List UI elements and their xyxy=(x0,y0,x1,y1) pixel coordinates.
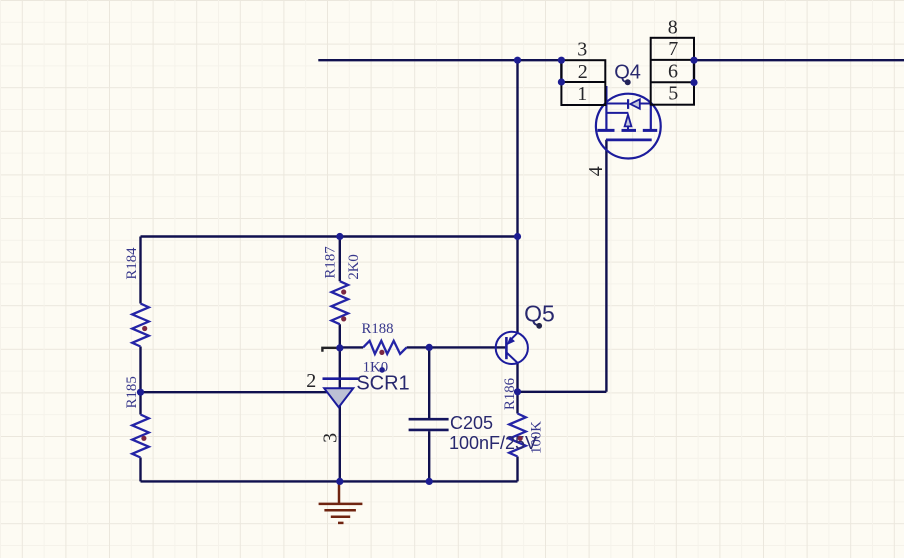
mosfet Q4 body diode cathode bar xyxy=(627,99,629,109)
wire Q4 pins 2-3 tie xyxy=(560,60,562,82)
mosfet Q4 channel dash 1 xyxy=(598,129,615,132)
thyristor SCR1 triangle xyxy=(324,388,353,407)
svg-text:R187: R187 xyxy=(322,246,338,278)
svg-text:SCR1: SCR1 xyxy=(356,372,409,394)
junction node Q4 pin 7 xyxy=(690,57,697,64)
marker dot R184 xyxy=(142,326,147,331)
svg-text:7: 7 xyxy=(668,38,678,60)
transistor Q5 circle xyxy=(496,332,528,364)
ground symbol xyxy=(319,481,363,523)
mosfet Q4 circle xyxy=(596,94,661,159)
mosfet Q4 origin dot xyxy=(625,79,631,85)
wire left rail upper segment xyxy=(139,237,141,304)
junction node Q4 pin 6 xyxy=(690,79,697,86)
mosfet Q4 gate bar xyxy=(606,138,652,141)
resistor R186 xyxy=(509,414,526,457)
svg-text:3: 3 xyxy=(577,38,587,60)
mosfet Q4 drain lead xyxy=(650,104,652,131)
transistor Q5 emitter diagonal upper xyxy=(511,333,517,339)
capacitor C205 xyxy=(409,419,449,430)
wire R188 left xyxy=(340,346,363,348)
marker dot R187 upper xyxy=(341,289,346,294)
wire left rail lower segment xyxy=(139,458,141,482)
Q4 pin box left (pins 1-3) xyxy=(561,60,605,105)
svg-text:Q5: Q5 xyxy=(524,301,555,327)
resistor R184 xyxy=(132,304,149,347)
mosfet Q4 channel dash 2 xyxy=(622,129,637,132)
wire R186 bottom xyxy=(516,457,518,482)
svg-text:R184: R184 xyxy=(124,247,140,280)
junction node mid rail vertical xyxy=(514,233,521,240)
wire SCR branch upper xyxy=(339,237,341,282)
wire SCR gate horizontal xyxy=(141,391,330,393)
junction node gate net xyxy=(514,388,521,395)
svg-text:3: 3 xyxy=(320,433,342,443)
wire top-left horizontal xyxy=(318,59,561,61)
marker dot R185 xyxy=(141,436,146,441)
wire bottom rail xyxy=(141,480,518,482)
svg-text:2: 2 xyxy=(306,370,316,392)
junction node Q4 pin 2 xyxy=(558,78,565,85)
marker dot R187 lower xyxy=(341,316,346,321)
svg-text:C205: C205 xyxy=(450,413,493,433)
resistor R185 xyxy=(132,415,149,458)
wire C205 lower xyxy=(428,431,430,481)
svg-text:100nF/25V: 100nF/25V xyxy=(449,433,537,453)
wire mid horizontal rail xyxy=(141,235,518,237)
mosfet Q4 body diode line right xyxy=(640,103,651,105)
wire Q4 source lead xyxy=(605,86,607,130)
mosfet Q4 substrate arrow stem xyxy=(627,125,629,131)
svg-text:R188: R188 xyxy=(361,321,393,337)
mosfet Q4 body diode line left xyxy=(606,103,627,105)
wire top-right horizontal xyxy=(694,59,904,61)
thyristor SCR1 cathode bar xyxy=(323,377,359,380)
SCR1 pin 1 number xyxy=(322,348,339,352)
wire Q4 gate vertical xyxy=(605,140,607,392)
svg-text:2: 2 xyxy=(578,61,588,83)
junction node SCR anode R188 xyxy=(336,344,343,351)
svg-text:6: 6 xyxy=(668,61,678,83)
marker dot SCR1 origin xyxy=(379,367,385,373)
junction node left rail tap xyxy=(137,389,144,396)
mosfet Q4 body diode triangle xyxy=(630,99,640,109)
wire R188 to Q5 base xyxy=(407,346,506,348)
svg-text:1: 1 xyxy=(577,83,587,105)
wire C205 upper xyxy=(428,347,430,418)
svg-text:5: 5 xyxy=(668,83,678,105)
junction node bottom rail ground xyxy=(336,478,343,485)
junction node bottom rail C205 xyxy=(426,478,433,485)
junction node top rail xyxy=(514,57,521,64)
marker dot R188 xyxy=(379,350,384,355)
junction node C205 top xyxy=(426,344,433,351)
svg-text:2K0: 2K0 xyxy=(346,254,362,279)
mosfet Q4 substrate arrow head xyxy=(625,115,632,127)
mosfet Q4 bulk line xyxy=(606,112,628,114)
Q4 pin box right (pins 5-8) xyxy=(651,38,694,105)
svg-text:4: 4 xyxy=(585,166,607,176)
marker dot R186 xyxy=(518,436,523,441)
resistor R187 xyxy=(332,281,349,324)
wire Q5 emitter down to node xyxy=(516,362,518,413)
transistor Q5 origin dot xyxy=(536,323,542,329)
mosfet Q4 channel dash 3 xyxy=(643,129,657,132)
wire left rail middle segment xyxy=(139,347,141,415)
junction node Q4 pin 3 xyxy=(558,57,565,64)
transistor Q5 base bar xyxy=(505,337,508,359)
junction node mid rail R187 xyxy=(336,233,343,240)
transistor Q5 emitter arrow xyxy=(507,337,515,345)
wire SCR branch lower xyxy=(339,324,341,481)
transistor Q5 collector diagonal lower xyxy=(506,352,517,362)
resistor R188 xyxy=(363,341,407,354)
svg-text:8: 8 xyxy=(668,16,678,38)
wire vertical from top rail down to Q5 collector xyxy=(516,60,518,332)
wire Q4 pins 5-7 tie xyxy=(693,60,695,82)
wire gate node horizontal xyxy=(518,391,607,393)
